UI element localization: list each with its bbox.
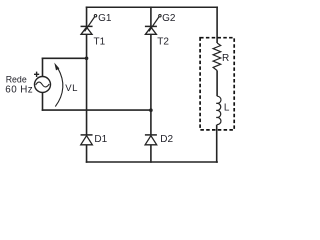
svg-text:T1: T1 [94, 37, 106, 48]
svg-text:G2: G2 [162, 13, 176, 24]
svg-text:G1: G1 [98, 13, 112, 24]
svg-text:R: R [222, 53, 229, 64]
svg-text:Rede: Rede [6, 75, 27, 85]
svg-text:D1: D1 [94, 134, 107, 145]
svg-text:D2: D2 [160, 134, 173, 145]
svg-text:60 Hz: 60 Hz [5, 85, 33, 96]
svg-text:VL: VL [65, 83, 78, 94]
svg-text:T2: T2 [157, 37, 169, 48]
svg-text:L: L [224, 103, 230, 114]
